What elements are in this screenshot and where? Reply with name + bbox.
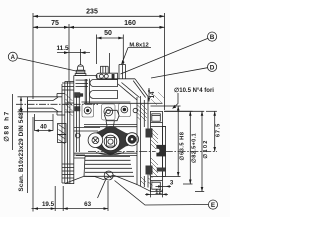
- rear bell hatch bottom: [141, 174, 153, 186]
- leader dia10.5: [173, 93, 179, 109]
- filler plug dark: [112, 74, 115, 79]
- svg-text:50: 50: [104, 30, 112, 37]
- flange hatch lower: [151, 158, 158, 177]
- dim 75 line: [33, 26, 69, 28]
- dim 12 line: [145, 193, 168, 195]
- small dark pad: [80, 93, 84, 96]
- shaft collar at bell: [57, 94, 65, 116]
- dim 19.5/63 line: [32, 208, 109, 210]
- dim 19.5/63 verticals: [54, 186, 56, 211]
- svg-text:235: 235: [86, 9, 98, 16]
- dim 40 extensions: [34, 114, 36, 131]
- leader E: [115, 181, 209, 206]
- input shaft outline: [28, 97, 63, 112]
- housing lower-left wall: [74, 154, 85, 156]
- cover gasket lines: [84, 123, 137, 125]
- svg-text:19.5: 19.5: [42, 201, 55, 208]
- flange plate: [151, 111, 163, 191]
- hub: [156, 145, 166, 157]
- housing bottom edge: [65, 175, 138, 185]
- bell inner wall: [76, 96, 78, 152]
- leader D: [151, 68, 208, 78]
- svg-text:14: 14: [150, 91, 156, 98]
- dim 160 line: [69, 26, 165, 28]
- interior bolt pad 1: [82, 104, 94, 117]
- right dim column: dia102: [164, 110, 204, 112]
- engine mount lug left: [58, 124, 67, 144]
- dim 235 extension left: [32, 13, 34, 99]
- svg-text:67.5: 67.5: [215, 123, 221, 137]
- svg-text:A: A: [11, 55, 16, 61]
- svg-text:160: 160: [124, 20, 136, 27]
- front wall lines left of slots: [76, 79, 89, 81]
- output centerline: [88, 151, 217, 153]
- right dim column: dia82.5: [164, 110, 193, 112]
- balloon B: [208, 32, 217, 41]
- svg-text:∅88 h7: ∅88 h7: [4, 110, 11, 142]
- selector hex nut: [105, 110, 120, 120]
- dim dia88 line: [20, 97, 22, 112]
- dim 11.5 line: [57, 52, 90, 54]
- bearing blocks dark: [146, 129, 153, 138]
- svg-text:75: 75: [51, 20, 59, 27]
- svg-text:12: 12: [155, 190, 162, 196]
- dim 235 line: [33, 15, 165, 17]
- svg-text:∅102: ∅102: [202, 139, 209, 158]
- right dim column: dia63.5 H8: [166, 105, 181, 107]
- svg-text:B: B: [210, 34, 215, 41]
- leader M8x12: [122, 48, 129, 65]
- svg-text:63: 63: [84, 201, 91, 208]
- drain plug: [98, 171, 114, 198]
- leader A: [17, 58, 76, 71]
- balloon E: [208, 200, 217, 209]
- input bore seal blocks: [74, 92, 80, 111]
- dim 3 line: [156, 185, 172, 187]
- svg-text:∅10.5 N°4 fori: ∅10.5 N°4 fori: [174, 87, 214, 94]
- dim 12 verticals: [150, 187, 152, 197]
- filler flange capsule: [96, 73, 117, 79]
- selector right bolt: [125, 133, 138, 146]
- selector big boss: [101, 132, 119, 150]
- leader B: [121, 38, 208, 74]
- body bottom gasket lines: [74, 152, 137, 154]
- cooling slot upper: [90, 80, 118, 87]
- dim 50 line: [97, 37, 124, 39]
- dim 14 small: [148, 88, 150, 102]
- svg-text:3: 3: [170, 180, 174, 187]
- rear bell hatch top: [138, 104, 148, 121]
- internal diagonals top right: [118, 84, 137, 100]
- flange hatch upper: [151, 128, 158, 151]
- M8 tapped boss: [119, 65, 126, 79]
- bottom bolt hole hatched: [157, 168, 166, 172]
- small boss right wall: [133, 108, 137, 112]
- dim 235 extension right: [164, 13, 166, 110]
- interior bolt pad 2: [102, 104, 116, 120]
- top bolt hole: [152, 114, 161, 121]
- right dim column: 67.5: [206, 110, 217, 112]
- svg-text:40: 40: [40, 125, 47, 131]
- selector stem: [105, 121, 116, 133]
- housing bottom and fins: [84, 156, 134, 176]
- interior bolt pad 3: [119, 104, 131, 117]
- dim 75/160 divider extension: [68, 24, 70, 81]
- svg-text:∅82.5+0.1: ∅82.5+0.1: [190, 133, 197, 163]
- housing top-right slope: [135, 79, 148, 104]
- svg-text:11.5: 11.5: [56, 45, 69, 52]
- svg-text:D: D: [210, 65, 215, 72]
- dim 50 extensions: [96, 35, 98, 65]
- pilot boss: [163, 127, 166, 177]
- bell housing left flange: [62, 76, 74, 185]
- output flange assembly: [74, 96, 166, 192]
- svg-text:E: E: [211, 202, 216, 209]
- selector trilobe plate dark: [88, 126, 132, 155]
- svg-text:∅63.5 H8: ∅63.5 H8: [178, 132, 185, 161]
- input bore hatch: [66, 94, 73, 116]
- cooling slot lower: [90, 91, 118, 99]
- dim 11.5 vertical at knob center: [80, 49, 82, 65]
- oil filler neck: [100, 53, 109, 73]
- mid rail: [84, 102, 148, 104]
- slot left verticals: [89, 79, 91, 104]
- balloon A: [8, 52, 17, 61]
- input shaft centerline: [16, 103, 98, 105]
- svg-text:Scan. B10x23x29 DIN 5484: Scan. B10x23x29 DIN 5484: [18, 108, 25, 191]
- rear bell lines: [136, 97, 138, 185]
- balloon D: [208, 62, 217, 71]
- rear bell top hatch: [151, 92, 165, 105]
- selector left bolt: [88, 133, 103, 148]
- housing top face: [74, 76, 135, 79]
- breather knob (A target): [75, 65, 86, 76]
- fin left ends: [84, 156, 85, 176]
- dim 40 line + frame: [35, 130, 54, 132]
- plate bottom edge: [96, 153, 124, 155]
